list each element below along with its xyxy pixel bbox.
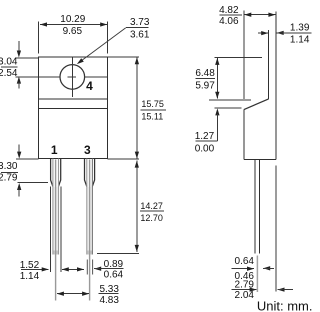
svg-text:1.27: 1.27 [195, 131, 215, 142]
svg-text:1.14: 1.14 [20, 271, 40, 282]
svg-text:9.65: 9.65 [63, 26, 83, 37]
svg-text:4.83: 4.83 [99, 295, 119, 306]
svg-text:4.82: 4.82 [219, 5, 239, 16]
svg-text:4.06: 4.06 [219, 16, 239, 27]
svg-text:10.29: 10.29 [60, 14, 85, 25]
svg-text:3.30: 3.30 [0, 161, 18, 172]
svg-text:0.64: 0.64 [104, 269, 124, 280]
svg-text:1.39: 1.39 [290, 23, 310, 34]
svg-text:15.75: 15.75 [141, 99, 164, 109]
svg-text:3.73: 3.73 [130, 17, 150, 28]
svg-text:1.14: 1.14 [290, 35, 310, 46]
svg-text:2.54: 2.54 [0, 68, 18, 79]
svg-text:2.79: 2.79 [0, 173, 18, 184]
svg-text:1: 1 [51, 143, 58, 157]
svg-text:3: 3 [84, 143, 91, 157]
svg-text:0.00: 0.00 [195, 143, 215, 154]
svg-text:14.27: 14.27 [140, 201, 163, 211]
svg-text:12.70: 12.70 [140, 213, 163, 223]
svg-text:2.04: 2.04 [235, 290, 255, 301]
svg-text:15.11: 15.11 [141, 111, 163, 121]
svg-text:3.61: 3.61 [130, 30, 150, 41]
svg-text:6.48: 6.48 [195, 68, 215, 79]
svg-text:0.64: 0.64 [235, 256, 255, 267]
svg-text:4: 4 [86, 79, 93, 93]
svg-text:Unit: mm.: Unit: mm. [257, 298, 312, 312]
svg-text:3.04: 3.04 [0, 56, 18, 67]
svg-text:5.97: 5.97 [195, 80, 215, 91]
